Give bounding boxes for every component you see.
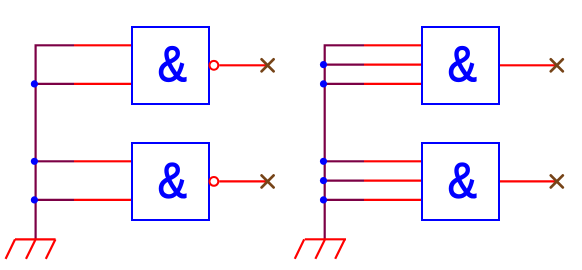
open-connection marker X3: [551, 59, 563, 71]
wire U3 input A red stub: [364, 44, 421, 46]
junction node on left bus at U2 input B: [31, 196, 38, 203]
and gate U3 body: [422, 27, 499, 104]
wire U4 output: [500, 180, 557, 182]
wire net N1 left bus: [36, 45, 74, 239]
svg-text:&: &: [158, 152, 187, 207]
svg-text:&: &: [158, 36, 187, 91]
wire U4 input C maroon segment: [325, 199, 364, 201]
open-connection marker X1: [262, 59, 274, 71]
junction node on left bus at U1 input B: [31, 80, 38, 87]
junction node on right bus at U4 input B: [320, 177, 327, 184]
svg-text:&: &: [448, 36, 477, 91]
wire net N2 right bus: [325, 45, 364, 239]
open-connection marker X2: [262, 175, 274, 187]
wire U3 input C maroon segment: [325, 83, 364, 85]
junction node on right bus at U4 input A: [320, 158, 327, 165]
nand gate U1 body: [132, 27, 209, 104]
nand gate U2 body: [132, 143, 209, 220]
wire U4 input A red stub: [364, 160, 421, 162]
ground symbol right: [295, 239, 346, 258]
wire U1 input B maroon segment: [36, 83, 74, 85]
wire U2 input A red stub: [74, 160, 131, 162]
junction node on right bus at U3 input C: [320, 80, 327, 87]
and gate U4 body: [422, 143, 499, 220]
junction node on right bus at U4 input C: [320, 196, 327, 203]
wire U1 input B red stub: [74, 83, 131, 85]
wire U2 input B maroon segment: [36, 199, 74, 201]
wire U3 output: [500, 64, 557, 66]
inversion bubble U2 output: [210, 177, 219, 186]
wire U4 input A maroon segment: [325, 160, 364, 162]
wire U4 input C red stub: [364, 199, 421, 201]
wire U1 input A red stub: [74, 44, 131, 46]
junction node on right bus at U3 input B: [320, 61, 327, 68]
wire U1 output: [219, 64, 267, 66]
svg-text:&: &: [448, 152, 477, 207]
wire U2 output: [219, 180, 267, 182]
wire U4 input B maroon segment: [325, 180, 364, 182]
wire U2 input B red stub: [74, 199, 131, 201]
wire U2 input A maroon segment: [36, 160, 74, 162]
wire U3 input B maroon segment: [325, 63, 364, 65]
inversion bubble U1 output: [210, 61, 219, 70]
wire U3 input B red stub: [364, 63, 421, 65]
open-connection marker X4: [551, 175, 563, 187]
ground symbol left: [6, 239, 56, 259]
wire U4 input B red stub: [364, 180, 421, 182]
wire U3 input C red stub: [364, 83, 421, 85]
junction node on left bus at U2 input A: [31, 158, 38, 165]
